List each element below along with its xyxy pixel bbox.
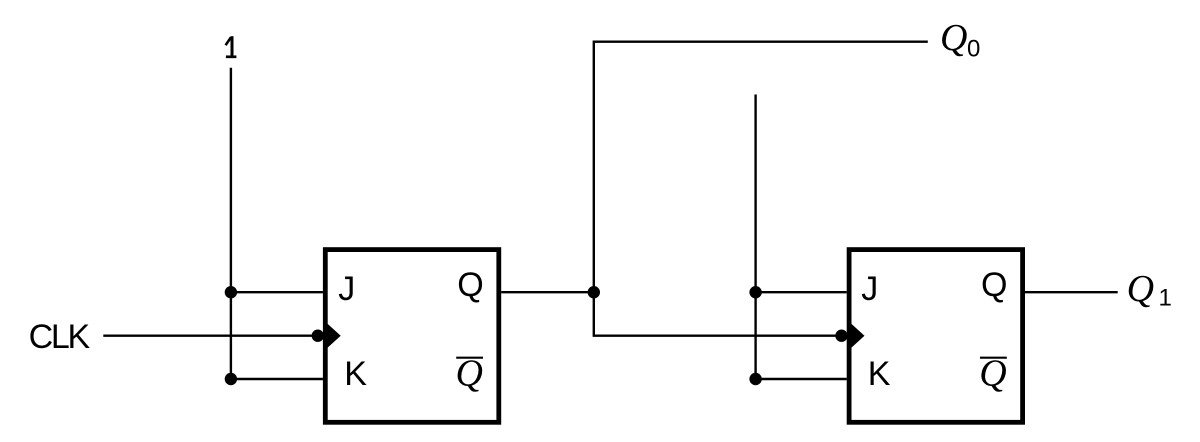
clock wedge U1 <box>328 324 341 348</box>
svg-text:Q: Q <box>981 266 1007 304</box>
junction: logic-1 line to U1.K <box>225 373 237 385</box>
svg-text:Q: Q <box>979 353 1006 395</box>
svg-text:K: K <box>344 355 367 393</box>
junction dot at U1 clock pin <box>312 330 324 342</box>
wire: node Q0 run (up, across to label, and down to U2 clock) <box>594 42 928 336</box>
wire: U2 K input stub <box>756 378 847 380</box>
junction dot at U2 clock pin <box>835 330 847 342</box>
svg-text:J: J <box>338 270 355 308</box>
wire: logic-1 vertical line down to U1 J and K inputs <box>230 68 232 379</box>
svg-text:1: 1 <box>1159 285 1172 312</box>
svg-text:Q: Q <box>940 17 967 59</box>
wire: U2 J input stub <box>756 291 847 293</box>
wire: U1 K input stub <box>231 378 323 380</box>
junction: logic-1 line to U1.J <box>225 286 237 298</box>
junction: tie line to U2.K <box>749 373 761 385</box>
label 1 (logic high tied to U1 J/K) <box>226 36 237 57</box>
flip-flop U2 body <box>849 250 1023 423</box>
svg-text:Q: Q <box>457 266 483 304</box>
wire: U1.Q output to node Q0 <box>501 291 594 293</box>
svg-text:0: 0 <box>967 36 980 63</box>
svg-text:J: J <box>861 270 878 308</box>
svg-text:K: K <box>868 355 891 393</box>
wire: U2.Q output to label Q1 <box>1025 291 1118 293</box>
pin label Q-bar (U1): overline <box>456 357 483 359</box>
svg-text:Q: Q <box>1127 268 1154 310</box>
svg-text:Q: Q <box>456 353 483 395</box>
junction: node Q0 branch point <box>588 286 600 298</box>
wire: CLK to U1 clock input <box>103 335 317 337</box>
flip-flop U1 body <box>325 250 499 423</box>
wire: U2 J/K tie line (vertical) <box>754 95 756 380</box>
wire: U1 J input stub <box>231 291 323 293</box>
clock wedge U2 <box>851 324 864 348</box>
junction: tie line to U2.J <box>749 286 761 298</box>
pin label Q-bar (U2): overline <box>980 357 1007 359</box>
svg-text:CLK: CLK <box>29 318 91 356</box>
